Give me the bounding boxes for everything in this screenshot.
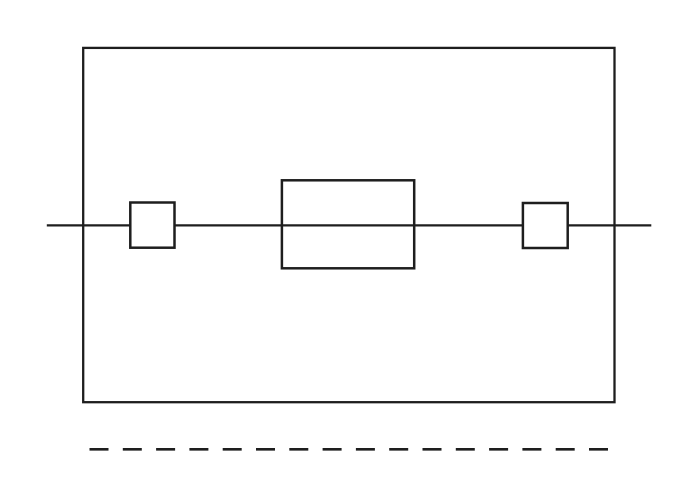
component box (center) bbox=[282, 180, 414, 268]
outer enclosure box bbox=[83, 48, 614, 402]
dashed mounting-rail line bbox=[90, 448, 609, 451]
wire (right lead) bbox=[568, 224, 652, 226]
wire (middle segment) bbox=[175, 224, 523, 226]
terminal clamp square (right) bbox=[523, 203, 568, 248]
wire (left lead) bbox=[47, 224, 131, 226]
terminal clamp square (left) bbox=[130, 203, 174, 248]
